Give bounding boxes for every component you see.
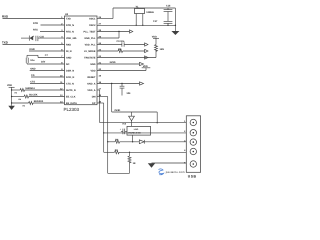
- resistor R7 pullup 1K5: [152, 35, 165, 57]
- pin numbers left 1-14: [60, 16, 63, 104]
- svg-text:RXD: RXD: [2, 15, 8, 19]
- pin numbers right 28-15: [99, 16, 102, 104]
- watermark logo: [159, 169, 164, 175]
- svg-text:C10: C10: [40, 35, 45, 38]
- svg-text:R5: R5: [23, 105, 25, 108]
- svg-text:jiexiantu.com: jiexiantu.com: [165, 171, 185, 174]
- svg-text:C16: C16: [166, 5, 171, 8]
- svg-text:EE_CLK: EE_CLK: [66, 95, 76, 98]
- svg-text:OSC2: OSC2: [89, 24, 96, 27]
- ground (left): [8, 106, 15, 110]
- pin numbers J1: [184, 120, 186, 165]
- svg-text:BLCEK: BLCEK: [29, 94, 38, 97]
- svg-text:DSR_N: DSR_N: [66, 69, 74, 72]
- wire regulator gnd stem: [132, 135, 134, 142]
- wire pin15 DP vertical: [97, 102, 104, 104]
- svg-text:VDD_325: VDD_325: [66, 37, 77, 40]
- wire pin26: [97, 31, 130, 33]
- capacitor C16: [164, 5, 173, 22]
- svg-text:R3: R3: [15, 92, 17, 95]
- svg-text:C9 10n: C9 10n: [117, 40, 125, 43]
- resistor R2 on DP wire: [104, 149, 187, 154]
- svg-text:OSC1: OSC1: [89, 17, 96, 20]
- wire 3V3D rail to regulator: [111, 84, 113, 113]
- node flag pin26: [130, 30, 133, 33]
- connector J1 USB: [186, 116, 200, 173]
- svg-text:CD: CD: [31, 74, 35, 77]
- svg-text:RTS_N: RTS_N: [66, 30, 74, 33]
- resistor R3 on pin12: [11, 87, 65, 94]
- wire pin16 DM vertical: [97, 96, 108, 98]
- svg-text:VDD_A: VDD_A: [87, 89, 95, 92]
- op-amp U2 (IC PL2303 body): [64, 13, 98, 112]
- node right pin labels: [84, 17, 97, 105]
- wire TXD to pin5: [3, 44, 65, 46]
- wire OSC1 riser: [97, 18, 113, 20]
- svg-text:CTS_N: CTS_N: [66, 82, 74, 85]
- svg-text:PLL_TEST: PLL_TEST: [84, 30, 96, 33]
- svg-text:GND: GND: [66, 56, 72, 59]
- svg-text:12MHz: 12MHz: [146, 11, 154, 14]
- svg-text:PL2303: PL2303: [64, 107, 80, 112]
- svg-text:RXD: RXD: [66, 43, 71, 46]
- capacitor C13 at regulator: [120, 128, 127, 134]
- svg-text:DM: DM: [92, 95, 96, 98]
- svg-text:TRISTATE: TRISTATE: [84, 56, 96, 59]
- capacitor C17: [153, 20, 172, 26]
- svg-text:DCD_N: DCD_N: [66, 76, 75, 79]
- resistor R4 on pin13: [11, 94, 65, 101]
- svg-text:GND: GND: [30, 68, 36, 71]
- svg-text:LV_MODE: LV_MODE: [84, 50, 96, 53]
- power VDD pin20: [97, 70, 146, 72]
- svg-text:GND_A: GND_A: [87, 82, 96, 85]
- wire RXD to pin1: [3, 18, 65, 20]
- wire CTS pin11: [30, 83, 65, 85]
- svg-text:SHDN13: SHDN13: [25, 87, 35, 90]
- ground (USB): [148, 163, 187, 168]
- svg-text:RI_N: RI_N: [66, 50, 72, 53]
- crystal Y1: [135, 6, 155, 26]
- capacitor C7 on pins7-8: [26, 54, 64, 64]
- svg-text:C17: C17: [153, 20, 158, 23]
- wire DSR pin9: [30, 70, 65, 72]
- svg-text:RESET: RESET: [88, 76, 97, 79]
- svg-text:LDO: LDO: [134, 128, 139, 131]
- regulator U3 LDO: [122, 122, 150, 135]
- ground (crystal): [171, 31, 179, 35]
- resistor R6 on DM wire: [108, 139, 140, 144]
- svg-text:GND: GND: [90, 63, 96, 66]
- power arrow into regulator: [129, 112, 135, 126]
- svg-text:NC: NC: [66, 63, 70, 66]
- svg-text:16V: 16V: [41, 61, 46, 64]
- svg-text:VOUT(3.8-5)V: VOUT(3.8-5)V: [128, 132, 141, 135]
- svg-text:DTR_N: DTR_N: [66, 24, 74, 27]
- svg-text:CTS: CTS: [30, 81, 35, 84]
- svg-text:3V3D: 3V3D: [110, 61, 116, 64]
- diode D1: [139, 140, 186, 144]
- svg-text:VDD: VDD: [143, 65, 148, 68]
- svg-text:EEDATA: EEDATA: [34, 100, 44, 103]
- power VDD (left pull resistors rail): [7, 84, 15, 106]
- capacitor C10 on pin4: [21, 35, 65, 41]
- wire RI pin6: [29, 50, 65, 52]
- svg-text:TXD: TXD: [66, 17, 71, 20]
- svg-text:GND_PLL: GND_PLL: [84, 37, 96, 40]
- wire pin22: [97, 57, 156, 59]
- svg-text:RTS: RTS: [33, 29, 38, 32]
- wire right return: [174, 8, 176, 31]
- svg-text:VDD: VDD: [7, 84, 12, 87]
- wire DTR pin2: [41, 24, 65, 26]
- wire DCD pin10: [31, 76, 65, 78]
- svg-text:USB: USB: [188, 175, 197, 179]
- svg-text:VDD: VDD: [90, 69, 95, 72]
- svg-text:VDD: VDD: [152, 35, 157, 38]
- svg-text:10u: 10u: [30, 59, 35, 62]
- wire pin25: [97, 37, 119, 39]
- resistor R5 on pin14: [11, 100, 65, 107]
- wire pin19 flag + capacitor C12: [97, 82, 144, 96]
- svg-text:DSR: DSR: [30, 48, 35, 51]
- wire pin18 to USB pin1: [97, 89, 100, 91]
- svg-text:VDD_PLL: VDD_PLL: [85, 43, 96, 46]
- svg-text:DP: DP: [92, 102, 96, 105]
- svg-text:TXD: TXD: [2, 41, 8, 45]
- svg-text:104: 104: [126, 92, 131, 95]
- svg-text:3V3D: 3V3D: [114, 109, 120, 112]
- capacitor C9 on pin24: [97, 40, 148, 47]
- wire pin21 3V3D flag: [97, 63, 140, 65]
- svg-text:DTR: DTR: [33, 22, 38, 25]
- node left pin labels: [66, 17, 77, 105]
- wire RTS pin3: [40, 31, 65, 33]
- resistor R8 on pin23: [97, 48, 148, 53]
- svg-text:1K5: 1K5: [160, 48, 165, 51]
- svg-text:SHTD_N: SHTD_N: [66, 89, 76, 92]
- svg-text:EE_DATA: EE_DATA: [66, 102, 77, 105]
- resistor R1 pulldown 1K: [107, 141, 136, 173]
- wire OSC2 rail: [97, 24, 175, 26]
- svg-text:1K: 1K: [133, 162, 136, 165]
